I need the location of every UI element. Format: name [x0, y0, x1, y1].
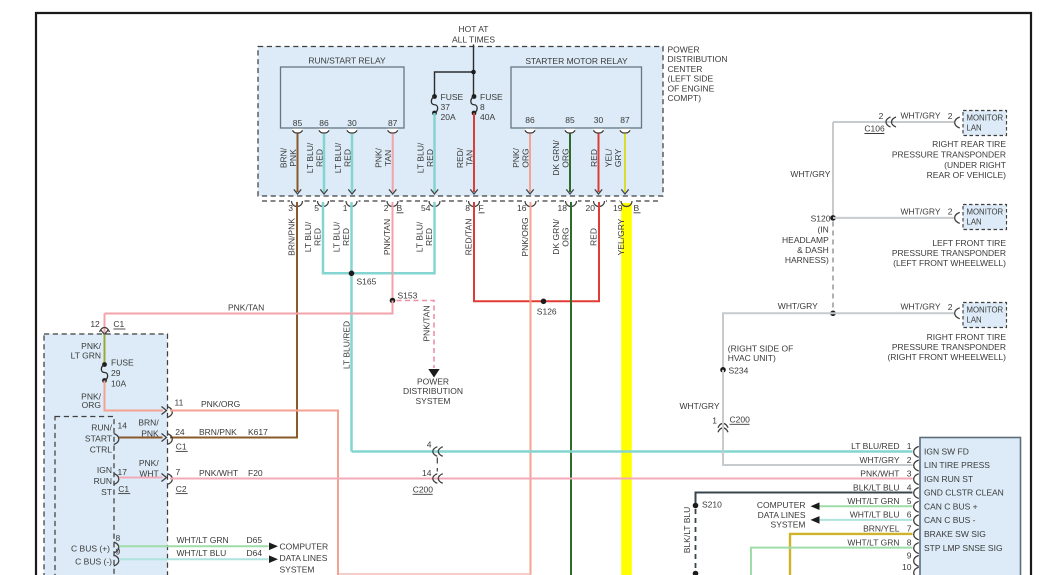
svg-text:WHT/GRY: WHT/GRY — [860, 455, 900, 465]
svg-text:RED: RED — [341, 228, 351, 246]
svg-text:10A: 10A — [111, 379, 126, 389]
connector bump pin 7 — [167, 474, 172, 485]
svg-text:29: 29 — [111, 368, 121, 378]
connector bump pin 8 — [114, 542, 119, 553]
svg-text:RED/: RED/ — [455, 147, 465, 168]
svg-text:CENTER: CENTER — [668, 64, 703, 74]
svg-text:PNK: PNK — [141, 428, 159, 438]
svg-text:& DASH: & DASH — [797, 245, 829, 255]
monitor LAN box U3 left front text — [967, 208, 1004, 227]
svg-text:LIN TIRE PRESS: LIN TIRE PRESS — [924, 460, 990, 470]
wire LT BLU/RED from fuse F37 — [433, 113, 436, 192]
svg-text:RUN/START RELAY: RUN/START RELAY — [308, 56, 386, 66]
wire WHT/GRY vertical to S120 — [832, 122, 834, 218]
wire BRN/PNK from K1 pin 85 — [297, 134, 299, 193]
label RED/TAN inside PDC at x474 — [455, 147, 475, 168]
svg-text:C106: C106 — [864, 124, 885, 134]
node HOT AT ALL TIMES label — [452, 24, 495, 45]
wire BRN/YEL cluster pin 7 — [790, 534, 913, 575]
svg-text:RED: RED — [315, 149, 325, 167]
svg-text:18: 18 — [558, 203, 568, 213]
arrow computer data lines pin 6 — [811, 516, 820, 524]
inner control module dashed box — [55, 417, 114, 575]
svg-text:HOT AT: HOT AT — [459, 24, 489, 34]
svg-text:2: 2 — [948, 302, 953, 312]
label LT BLU/RED below PDC at x434.5 — [415, 221, 435, 252]
svg-text:GND CLSTR CLEAN: GND CLSTR CLEAN — [924, 488, 1004, 498]
svg-text:GRY: GRY — [613, 149, 623, 168]
svg-text:DK GRN/: DK GRN/ — [551, 219, 561, 255]
wire LT BLU/RED S165 down to cluster row — [350, 202, 353, 452]
relay K1 pin bumps — [293, 129, 398, 134]
arrow D64 to computer data lines — [269, 555, 278, 563]
svg-text:86: 86 — [319, 118, 329, 128]
svg-text:2: 2 — [907, 455, 912, 465]
svg-text:19: 19 — [613, 203, 623, 213]
wire WHT/GRY to monitor 1 — [833, 121, 954, 123]
svg-text:STARTER MOTOR RELAY: STARTER MOTOR RELAY — [525, 56, 628, 66]
svg-text:ORG: ORG — [561, 227, 571, 246]
label IGN RUN ST — [94, 465, 112, 497]
svg-text:PRESSURE TRANSPONDER: PRESSURE TRANSPONDER — [892, 342, 1006, 352]
svg-text:C BUS (+): C BUS (+) — [71, 543, 110, 553]
svg-text:PNK/TAN: PNK/TAN — [228, 303, 264, 313]
svg-text:PNK/: PNK/ — [511, 147, 521, 167]
connector bumps below PDC — [292, 201, 633, 207]
splice S234 — [720, 367, 726, 373]
svg-text:10: 10 — [902, 562, 912, 572]
wire DK GRN/ORG pin18 run down — [570, 202, 572, 575]
svg-text:D64: D64 — [247, 548, 263, 558]
svg-text:2: 2 — [879, 111, 884, 121]
svg-text:PNK/WHT: PNK/WHT — [860, 469, 899, 479]
svg-text:S120: S120 — [811, 214, 831, 224]
svg-text:HVAC UNIT): HVAC UNIT) — [728, 353, 776, 363]
cluster wire labels column — [847, 441, 899, 547]
label RUN/START CTRL — [85, 423, 113, 455]
svg-text:TAN: TAN — [383, 150, 393, 166]
label PNK/TAN below PDC at x392.5 — [382, 219, 392, 255]
relay K2 pin numbers — [525, 115, 630, 125]
svg-text:SYSTEM: SYSTEM — [416, 396, 451, 406]
connector bump pin 12 — [100, 328, 110, 333]
arrow into left box pin 12 — [101, 330, 109, 335]
monitor LAN box U2 right rear — [963, 111, 1007, 136]
svg-text:POWER: POWER — [417, 377, 449, 387]
label PNK/LT GRN — [71, 341, 102, 361]
connector C1 face line below PDC — [262, 200, 661, 202]
svg-text:C200: C200 — [730, 415, 751, 425]
svg-text:DISTRIBUTION: DISTRIBUTION — [668, 54, 728, 64]
svg-text:C1: C1 — [176, 442, 187, 452]
label BRN/PNK inside PDC at x297.5 — [279, 147, 299, 168]
cluster internal signal labels — [924, 447, 1004, 553]
svg-text:30: 30 — [347, 118, 357, 128]
monitor LAN box U4 right front text — [967, 306, 1004, 325]
svg-text:COMPUTER: COMPUTER — [280, 542, 329, 552]
svg-text:LT BLU/RED: LT BLU/RED — [851, 441, 899, 451]
svg-text:S210: S210 — [702, 500, 722, 510]
svg-text:RED: RED — [589, 149, 599, 167]
svg-text:YEL/: YEL/ — [604, 148, 614, 167]
connector bump pin 17 — [114, 474, 119, 485]
svg-text:WHT/LT GRN: WHT/LT GRN — [847, 537, 899, 547]
fuse F29 label — [111, 358, 134, 389]
wire LT BLU/RED pin54 to S165 — [352, 202, 435, 273]
svg-text:54: 54 — [421, 203, 431, 213]
label RED/TAN below PDC at x474 — [464, 219, 474, 256]
label COMPUTER DATA LINES SYSTEM left — [280, 542, 329, 575]
svg-text:C200: C200 — [413, 485, 434, 495]
svg-text:14: 14 — [422, 468, 432, 478]
svg-text:(LEFT FRONT WHEELWELL): (LEFT FRONT WHEELWELL) — [893, 258, 1006, 268]
svg-text:B: B — [634, 203, 640, 213]
svg-text:CAN C BUS +: CAN C BUS + — [924, 501, 978, 511]
svg-text:SYSTEM: SYSTEM — [280, 564, 315, 574]
label YEL/GRY inside PDC at x622.5 — [604, 148, 624, 167]
svg-text:1: 1 — [907, 441, 912, 451]
svg-text:8: 8 — [907, 537, 912, 547]
wire battery feed branch — [435, 72, 474, 96]
svg-text:WHT/GRY: WHT/GRY — [680, 401, 720, 411]
monitor LAN box U4 right front — [963, 303, 1007, 328]
relay K1 RUN/START RELAY box — [281, 67, 405, 128]
svg-text:LT GRN: LT GRN — [71, 351, 101, 361]
label LT BLU/RED below PDC at x351.5 — [332, 221, 352, 252]
wire BRN/PNK pin14 to pin24 — [119, 437, 163, 439]
svg-text:F20: F20 — [248, 468, 263, 478]
arrow to power distribution system — [428, 369, 439, 378]
monitor LAN box U3 left front — [963, 205, 1007, 230]
wire PNK/LT GRN to fuse 29 — [104, 335, 106, 365]
svg-text:PNK/TAN: PNK/TAN — [382, 219, 392, 255]
label PNK/ORG below PDC at x530.5 — [520, 217, 530, 256]
label right side of HVAC unit — [728, 343, 794, 363]
wire WHT/GRY junction to monitor 3 — [833, 312, 954, 314]
svg-text:WHT: WHT — [139, 468, 158, 478]
PDC label — [668, 45, 728, 104]
left fuse box (outer dashed box) — [44, 334, 168, 575]
svg-text:BRN/: BRN/ — [279, 147, 289, 168]
svg-text:87: 87 — [388, 118, 398, 128]
svg-text:F: F — [479, 203, 484, 213]
svg-text:MONITOR: MONITOR — [967, 114, 1004, 123]
svg-text:CTRL: CTRL — [90, 445, 112, 455]
label RED below PDC at x599 — [589, 228, 599, 246]
connector bump pin 11 — [167, 407, 172, 418]
svg-text:17: 17 — [118, 467, 128, 477]
arrow D65 to computer data lines — [269, 543, 278, 551]
svg-text:COMPT): COMPT) — [668, 93, 702, 103]
label COMPUTER DATA LINES SYSTEM right — [757, 500, 806, 530]
svg-text:2: 2 — [948, 207, 953, 217]
wire WHT/LT GRN cluster pin 5 — [820, 505, 913, 507]
splice S153 — [390, 298, 396, 304]
wire WHT/GRY S120 to monitor 2 — [833, 217, 954, 219]
wire PNK/ORG fuse29 to pin 11 — [105, 381, 164, 411]
svg-text:40A: 40A — [480, 112, 495, 122]
svg-text:5: 5 — [907, 496, 912, 506]
wire YEL/GRY thick yellow run — [621, 202, 632, 575]
svg-text:B: B — [397, 203, 403, 213]
svg-text:LT BLU/: LT BLU/ — [333, 142, 343, 173]
svg-text:BRAKE SW SIG: BRAKE SW SIG — [924, 529, 986, 539]
svg-text:S234: S234 — [729, 366, 749, 376]
svg-text:BRN/PNK: BRN/PNK — [199, 427, 237, 437]
svg-text:LAN: LAN — [967, 218, 982, 227]
svg-text:BLK/LT BLU: BLK/LT BLU — [853, 482, 899, 492]
label in headlamp and dash harness — [782, 224, 829, 265]
label DK GRN/ORG below PDC at x571 — [551, 219, 571, 255]
wire WHT/GRY dashed S120 down — [832, 222, 834, 311]
svg-text:BRN/YEL: BRN/YEL — [863, 524, 900, 534]
svg-text:WHT/LT GRN: WHT/LT GRN — [847, 496, 899, 506]
junction dot lower S120 branch — [830, 311, 836, 317]
svg-text:LT BLU/: LT BLU/ — [415, 221, 425, 252]
junction dot bottom of BLK/LT BLU — [693, 571, 699, 575]
svg-text:6: 6 — [907, 510, 912, 520]
splice S126 — [541, 299, 547, 305]
connector C200 pin 14 symbol — [433, 474, 438, 484]
wire RED to S126 — [544, 202, 600, 301]
connector C200 link line — [436, 458, 438, 472]
arrow computer data lines pin 5 — [811, 502, 820, 510]
arrow into pin 24 — [162, 434, 167, 442]
svg-text:PNK/WHT: PNK/WHT — [199, 468, 238, 478]
arrow into pin 11 — [162, 407, 167, 415]
svg-text:IGN: IGN — [97, 465, 112, 475]
monitor LAN box U2 right rear text — [967, 114, 1004, 133]
label PNK/ORG inside left box — [81, 392, 101, 411]
svg-text:PNK/: PNK/ — [139, 458, 159, 468]
svg-text:FUSE: FUSE — [480, 92, 503, 102]
caption left front transponder — [892, 238, 1006, 268]
svg-text:RED: RED — [424, 228, 434, 246]
svg-text:PNK: PNK — [288, 149, 298, 167]
svg-text:PNK/: PNK/ — [374, 147, 384, 167]
wire PNK/ORG pin16 run down — [530, 202, 532, 575]
svg-text:85: 85 — [293, 118, 303, 128]
connector bump pin 9 — [114, 555, 119, 566]
wire DK GRN/ORG from K2 pin 85 — [569, 134, 571, 193]
caption right rear transponder — [892, 139, 1006, 180]
svg-text:IGN SW FD: IGN SW FD — [924, 447, 969, 457]
svg-text:30: 30 — [594, 115, 604, 125]
svg-text:11: 11 — [175, 398, 184, 408]
wire WHT/GRY junction left and down to S234 — [723, 313, 833, 370]
svg-text:14: 14 — [118, 421, 128, 431]
label PNK/TAN inside PDC at x392.7 — [374, 147, 394, 167]
relay K2 pin bumps — [525, 129, 630, 134]
wire PNK/TAN from K1 pin 87 — [392, 134, 394, 193]
svg-text:8: 8 — [465, 203, 470, 213]
wire RED/TAN from fuse F8 — [473, 113, 475, 192]
power distribution center box (PDC) — [258, 47, 663, 197]
junction dot battery feed — [471, 70, 476, 75]
svg-text:1: 1 — [712, 416, 717, 426]
svg-text:DISTRIBUTION: DISTRIBUTION — [403, 386, 463, 396]
fuse F29 symbol — [102, 362, 107, 367]
fuse F8 symbol — [472, 94, 477, 99]
label PNK/WHT between — [139, 458, 159, 478]
svg-text:ORG: ORG — [521, 148, 531, 167]
cluster pin connector bumps — [914, 446, 919, 575]
svg-text:2: 2 — [384, 203, 389, 213]
wire faint pink bottom link — [338, 573, 531, 575]
svg-text:RED: RED — [343, 149, 353, 167]
svg-text:WHT/GRY: WHT/GRY — [790, 169, 830, 179]
svg-text:YEL/GRY: YEL/GRY — [616, 218, 626, 255]
svg-text:C1: C1 — [113, 319, 124, 329]
splice S120 — [830, 215, 836, 221]
wire PNK/TAN S153 down and left to C1-12 — [105, 301, 393, 314]
connector bump monitor 2 — [955, 212, 960, 223]
fuse F37 symbol — [432, 94, 437, 99]
svg-text:20: 20 — [586, 203, 596, 213]
svg-text:C2: C2 — [176, 484, 187, 494]
svg-text:WHT/LT BLU: WHT/LT BLU — [177, 548, 227, 558]
wire battery feed vertical — [473, 45, 475, 97]
svg-text:7: 7 — [176, 467, 181, 477]
svg-text:WHT/LT BLU: WHT/LT BLU — [850, 510, 900, 520]
svg-text:LT BLU/: LT BLU/ — [305, 142, 315, 173]
svg-text:BRN/: BRN/ — [138, 418, 159, 428]
wire PNK/ORG pin11 to vertical run — [170, 411, 338, 575]
label PNK/ORG inside PDC at x530 — [511, 147, 531, 167]
svg-text:RED/TAN: RED/TAN — [464, 219, 474, 256]
svg-text:MONITOR: MONITOR — [967, 306, 1004, 315]
pin numbers below PDC — [288, 203, 622, 213]
splice S165 — [349, 271, 355, 277]
svg-text:STP LMP SNSE SIG: STP LMP SNSE SIG — [924, 543, 1003, 553]
svg-text:85: 85 — [565, 115, 575, 125]
svg-text:RUN: RUN — [94, 476, 112, 486]
svg-text:PRESSURE TRANSPONDER: PRESSURE TRANSPONDER — [892, 248, 1006, 258]
wire LT BLU/RED from K1 pin 30 — [351, 134, 354, 193]
svg-text:BRN/PNK: BRN/PNK — [287, 218, 297, 256]
svg-text:WHT/GRY: WHT/GRY — [778, 301, 818, 311]
fuse F8 label — [480, 92, 503, 122]
wire WHT/LT GRN C BUS plus — [119, 545, 269, 547]
svg-text:8: 8 — [480, 102, 485, 112]
svg-text:COMPUTER: COMPUTER — [757, 500, 806, 510]
svg-text:ALL TIMES: ALL TIMES — [452, 35, 495, 45]
caption right front transponder — [887, 332, 1006, 362]
svg-text:3: 3 — [907, 469, 912, 479]
svg-text:WHT/GRY: WHT/GRY — [901, 111, 941, 121]
label BRN/PNK below PDC at x297 — [287, 218, 297, 256]
wire LT BLU/RED pin5 to S165 — [323, 202, 352, 273]
wire WHT/GRY S234 to C200 — [722, 370, 724, 418]
svg-text:K617: K617 — [248, 427, 268, 437]
svg-text:(UNDER RIGHT: (UNDER RIGHT — [944, 160, 1006, 170]
svg-text:12: 12 — [90, 319, 100, 329]
svg-text:LAN: LAN — [967, 316, 982, 325]
svg-text:4: 4 — [427, 440, 432, 450]
svg-text:2: 2 — [948, 111, 953, 121]
connector bump monitor 1 — [955, 117, 960, 128]
svg-text:LT BLU/RED: LT BLU/RED — [342, 321, 352, 369]
svg-text:HARNESS): HARNESS) — [785, 255, 829, 265]
svg-text:DATA LINES: DATA LINES — [758, 510, 806, 520]
svg-text:ORG: ORG — [561, 148, 571, 167]
connector bump pin 14 — [114, 434, 119, 445]
svg-text:(RIGHT SIDE OF: (RIGHT SIDE OF — [728, 343, 794, 353]
wire PNK/ORG from K2 pin 86 — [529, 134, 531, 193]
svg-text:S165: S165 — [357, 277, 377, 287]
wire RED from K2 pin 30 — [598, 134, 600, 193]
splice S210 — [693, 503, 699, 509]
wire PNK/TAN pin2 to S153 — [392, 202, 394, 301]
svg-text:LEFT FRONT TIRE: LEFT FRONT TIRE — [932, 238, 1006, 248]
svg-text:(LEFT SIDE: (LEFT SIDE — [668, 74, 714, 84]
svg-text:ORG: ORG — [82, 400, 101, 410]
svg-text:(RIGHT FRONT WHEELWELL): (RIGHT FRONT WHEELWELL) — [887, 352, 1006, 362]
svg-text:24: 24 — [175, 427, 185, 437]
relay K2 STARTER MOTOR RELAY box — [511, 67, 642, 128]
svg-text:RED: RED — [425, 149, 435, 167]
svg-text:FUSE: FUSE — [111, 358, 134, 368]
svg-text:LAN: LAN — [967, 124, 982, 133]
wire WHT/GRY C200 to cluster pin 2 — [723, 416, 913, 465]
svg-text:SYSTEM: SYSTEM — [771, 520, 806, 530]
connector bump monitor 3 — [955, 308, 960, 319]
wire LT BLU/RED row to cluster pin 1 — [352, 450, 913, 453]
svg-text:WHT/GRY: WHT/GRY — [901, 206, 941, 216]
wire WHT/LT BLU C BUS minus — [119, 558, 269, 560]
svg-text:DATA LINES: DATA LINES — [280, 553, 328, 563]
svg-text:IGN RUN ST: IGN RUN ST — [924, 474, 973, 484]
svg-text:S153: S153 — [398, 291, 418, 301]
connector C200 on vertical gray wire — [718, 423, 728, 427]
label DK GRN/ORG inside PDC at x570 — [551, 140, 571, 176]
label POWER DISTRIBUTION SYSTEM — [403, 377, 463, 406]
svg-text:MONITOR: MONITOR — [967, 208, 1004, 217]
svg-text:FUSE: FUSE — [441, 92, 464, 102]
svg-text:(IN: (IN — [817, 224, 828, 234]
label LT BLU/RED inside PDC at x434.5 — [416, 142, 436, 173]
svg-text:PNK/ORG: PNK/ORG — [520, 217, 530, 256]
svg-text:PRESSURE TRANSPONDER: PRESSURE TRANSPONDER — [892, 150, 1006, 160]
svg-text:BLK/LT BLU: BLK/LT BLU — [682, 507, 692, 553]
label LT BLU/RED below PDC at x323 — [303, 221, 323, 252]
wire BRN/PNK run down — [170, 202, 297, 438]
label RED inside PDC at x598.5 — [589, 149, 599, 167]
wire WHT/LT GRN cluster pin 8 — [751, 548, 913, 575]
svg-text:37: 37 — [441, 102, 451, 112]
svg-text:RIGHT REAR TIRE: RIGHT REAR TIRE — [932, 139, 1006, 149]
wire PNK/WHT row to cluster pin 3 — [170, 478, 913, 480]
svg-text:3: 3 — [288, 203, 293, 213]
svg-text:REAR OF VEHICLE): REAR OF VEHICLE) — [927, 170, 1007, 180]
connector C106 symbol — [886, 117, 891, 127]
arrow into pin 7 — [162, 474, 167, 482]
svg-text:RUN/: RUN/ — [91, 423, 112, 433]
svg-text:ST: ST — [101, 487, 112, 497]
svg-text:5: 5 — [314, 203, 319, 213]
svg-text:LT BLU/: LT BLU/ — [303, 221, 313, 252]
label YEL/GRY below PDC at x626.5 — [616, 218, 626, 255]
label LT BLU/RED inside PDC at x352 — [333, 142, 353, 173]
svg-text:RED: RED — [313, 228, 323, 246]
svg-text:C BUS (-): C BUS (-) — [75, 556, 112, 566]
wire PNK/TAN into left box — [104, 314, 106, 334]
svg-text:CAN C BUS -: CAN C BUS - — [924, 515, 976, 525]
svg-text:8: 8 — [116, 533, 121, 543]
svg-text:1: 1 — [343, 203, 348, 213]
svg-text:OF ENGINE: OF ENGINE — [668, 83, 715, 93]
svg-text:START: START — [85, 434, 112, 444]
